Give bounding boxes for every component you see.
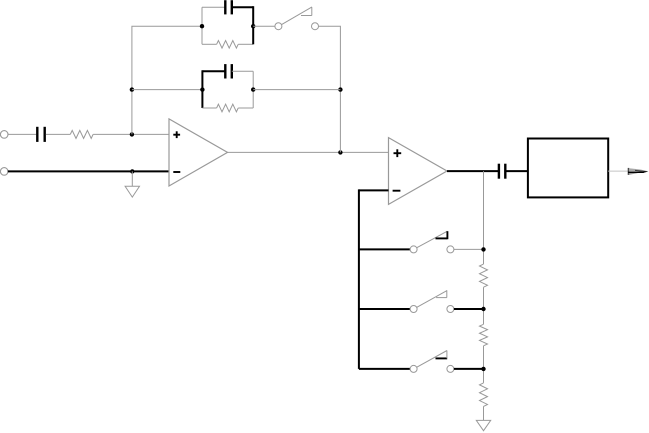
capacitor C2 — [225, 0, 253, 44]
wire S1 to right vertical — [319, 26, 341, 152]
input port P1 — [0, 131, 8, 139]
resistor R5 — [480, 324, 488, 345]
node dot at feedback/input junction — [130, 132, 134, 136]
output port arrow — [628, 168, 649, 175]
wire RC1 gray frame — [202, 7, 253, 44]
resistor R6 — [480, 383, 488, 407]
wire U2 output — [447, 170, 498, 172]
wire feedback left vertical — [132, 26, 202, 134]
switch S2 — [410, 231, 454, 253]
node dot RC1 right — [251, 24, 255, 28]
wire R1 to U1 plus input — [93, 133, 169, 135]
node dot ladder tap 1 — [481, 247, 485, 251]
capacitor C4 — [499, 164, 528, 179]
wire ladder vertical segments — [483, 171, 485, 420]
node dot left vertical / RC2 — [130, 87, 134, 91]
wire RC1 to S1 — [253, 25, 275, 27]
wire RC2 gray frame — [202, 71, 253, 108]
wire U2 minus network vertical — [359, 189, 410, 369]
switch S1 — [275, 7, 319, 30]
wire S3 to ladder — [454, 308, 484, 310]
node dot right vertical / RC2 — [338, 87, 342, 91]
wire P1 to C1 — [8, 133, 36, 135]
wire U1 output to U2 plus input — [228, 151, 389, 153]
block X1 — [528, 139, 608, 198]
wire RC2 left — [132, 89, 203, 91]
wire block to output arrow — [608, 170, 628, 172]
node dot ladder tap 3 — [481, 367, 485, 371]
wire RC2 to right vertical — [253, 89, 340, 91]
capacitor C3 — [202, 64, 231, 108]
op-amp U1 — [169, 119, 228, 186]
wire P2 to U1 minus input — [8, 170, 169, 172]
wire S2 to ladder — [454, 248, 484, 250]
wire C1 to R1 — [46, 133, 70, 135]
resistor R2 — [217, 41, 239, 49]
node dot RC1 left — [200, 24, 204, 28]
ground GND1 — [125, 171, 139, 197]
node dot U1out/feedback — [338, 150, 342, 154]
node dot at ground junction — [130, 169, 134, 173]
input port P2 — [0, 168, 8, 176]
wire S4 to ladder — [454, 368, 484, 370]
node dot ladder tap 2 — [481, 307, 485, 311]
resistor R4 — [480, 264, 488, 287]
op-amp U2 — [389, 138, 448, 205]
switch S3 — [410, 290, 454, 312]
capacitor C1 — [37, 127, 44, 142]
node dot RC2 right — [251, 87, 255, 91]
resistor R1 — [70, 130, 93, 138]
ground GND2 — [476, 420, 490, 430]
resistor R3 — [217, 104, 239, 112]
switch S4 — [410, 351, 454, 373]
node dot RC2 left — [200, 87, 204, 91]
